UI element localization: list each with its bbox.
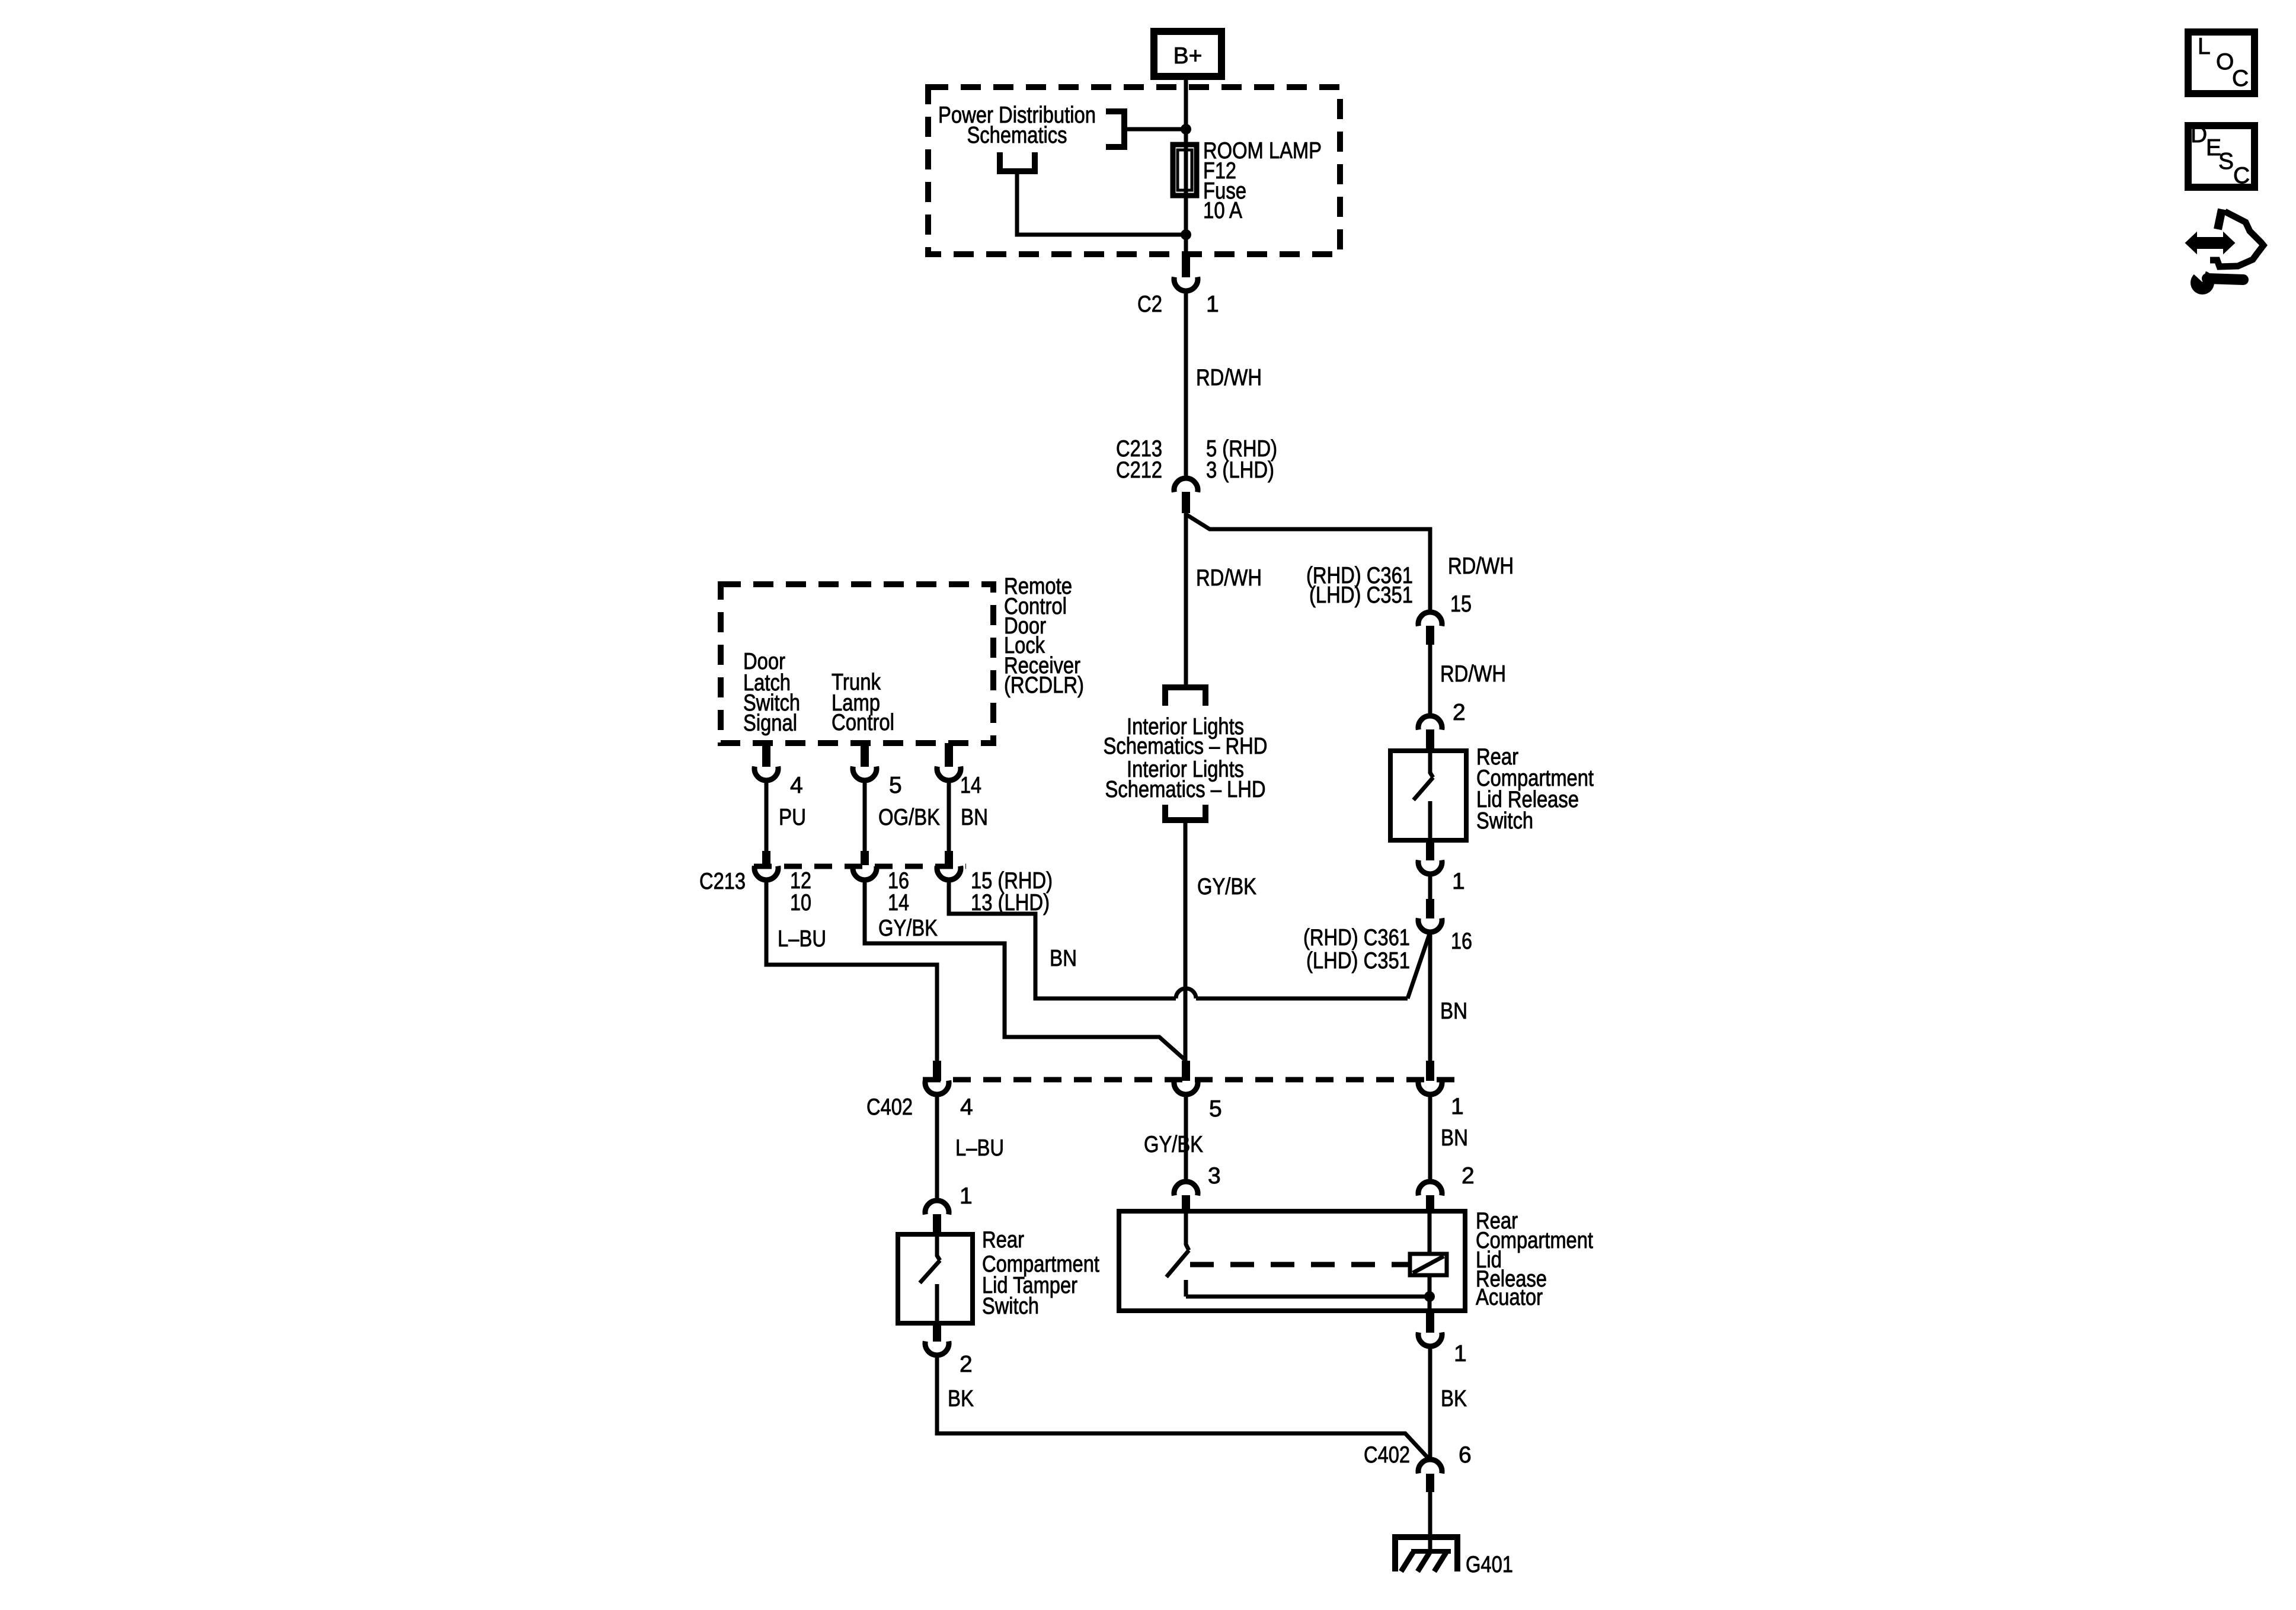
svg-text:O: O (2216, 49, 2234, 75)
svg-text:BK: BK (948, 1386, 974, 1411)
DESC icon box (2188, 126, 2255, 187)
actuator pin 1 stub (1426, 1311, 1434, 1333)
svg-text:BN: BN (1050, 946, 1077, 971)
svg-text:3 (LHD): 3 (LHD) (1206, 457, 1274, 483)
wire BN diagonal from pin 16 (1408, 932, 1430, 998)
connector RCDLR pin 14 (937, 767, 961, 780)
connector C402 pin 6 stub (1426, 1474, 1434, 1492)
wire L-BU to tamper switch (935, 1094, 939, 1201)
LOC icon box (2188, 32, 2255, 94)
actuator switch blade (1166, 1250, 1189, 1277)
svg-text:14: 14 (960, 773, 981, 798)
junction node dot (1181, 124, 1191, 135)
svg-text:6: 6 (1459, 1442, 1472, 1468)
svg-text:Schematics – RHD: Schematics – RHD (1104, 734, 1268, 759)
wire from RCDLR pin 5 (863, 780, 867, 851)
connector C213 stub x1459 (861, 851, 869, 865)
connector actuator pin 3 (1174, 1182, 1198, 1195)
svg-text:GY/BK: GY/BK (878, 916, 938, 941)
connector C402 pin 6 (1418, 1459, 1442, 1473)
svg-text:RD/WH: RD/WH (1196, 565, 1262, 591)
connector C361/C351 pin 16 (1418, 918, 1442, 932)
rear compartment lid release switch box (1390, 751, 1466, 840)
svg-text:Rear: Rear (982, 1227, 1024, 1253)
connector C402 pin 1 stub (1426, 1061, 1434, 1081)
connector C2 male stub (1182, 256, 1190, 277)
wire fuse to box bottom (1184, 145, 1188, 254)
off-page bracket down (Interior Lights) (1165, 687, 1205, 706)
connector C2 pin 1 (1174, 277, 1198, 291)
wire L-BU routing (766, 880, 937, 1062)
svg-text:BN: BN (1440, 998, 1467, 1024)
wire GY/BK routing (865, 880, 1186, 1061)
actuator switch contact top (1186, 1211, 1189, 1250)
svg-text:G401: G401 (1466, 1552, 1513, 1577)
tamper switch pin 2 stub (933, 1323, 941, 1342)
svg-text:(LHD) C351: (LHD) C351 (1309, 582, 1413, 608)
actuator pin 3 stub (1182, 1195, 1190, 1211)
wire BN to actuator pin 2 (1428, 1094, 1432, 1182)
svg-text:C: C (2233, 163, 2250, 188)
connector tamper switch pin 1 (925, 1201, 949, 1214)
connector C402 pin 4 stub (933, 1061, 941, 1081)
fuse F12 outer (1173, 145, 1197, 196)
svg-text:PU: PU (779, 805, 806, 830)
svg-text:C213: C213 (699, 869, 746, 894)
svg-text:2: 2 (1462, 1163, 1475, 1189)
RCDLR pin 5 stub (861, 743, 869, 767)
RCDLR pin 14 stub (945, 743, 953, 767)
wire RD/WH branch to right (1186, 514, 1430, 613)
svg-text:C212: C212 (1116, 457, 1162, 483)
wire GY/BK down to C402 (1184, 820, 1188, 1062)
fuse block dashed box (Power Distribution) (928, 87, 1340, 254)
RCDLR pin 4 stub (762, 743, 770, 767)
svg-text:BN: BN (961, 805, 988, 830)
car service icon: double arrow (2186, 233, 2234, 253)
svg-text:3: 3 (1208, 1163, 1221, 1189)
connector C213/C212 pin (1174, 478, 1198, 492)
svg-text:Acuator: Acuator (1476, 1285, 1543, 1310)
svg-text:2: 2 (1453, 700, 1466, 725)
svg-text:C2: C2 (1137, 292, 1162, 317)
svg-text:(LHD) C351: (LHD) C351 (1306, 948, 1410, 974)
svg-text:5: 5 (1209, 1096, 1222, 1122)
svg-text:C402: C402 (866, 1094, 913, 1120)
svg-text:L–BU: L–BU (778, 926, 826, 952)
wire from RCDLR pin 4 (765, 780, 769, 851)
connector C213 pin x1293 (754, 866, 778, 880)
release switch pin 1 stub (1426, 840, 1434, 860)
wire from RCDLR pin 14 (947, 780, 951, 851)
connector release switch pin 2 (1418, 716, 1442, 729)
svg-text:L: L (2198, 34, 2211, 59)
svg-text:1: 1 (1206, 292, 1219, 317)
tamper switch blade (920, 1260, 940, 1283)
wire BN down from pin 16 (1428, 932, 1432, 1062)
release switch blade (1414, 777, 1433, 800)
wire RD/WH main down (1184, 513, 1188, 687)
junction node dot (1181, 229, 1191, 240)
wire GY/BK to actuator pin 3 (1184, 1094, 1188, 1182)
svg-text:Switch: Switch (982, 1294, 1039, 1319)
connector C402 pin 4 (925, 1081, 949, 1094)
connector tamper switch pin 2 (925, 1342, 949, 1355)
connector C402 pin 5 stub (1182, 1061, 1190, 1081)
svg-text:BN: BN (1441, 1125, 1468, 1151)
car service icon: wrench (2191, 271, 2214, 295)
wire BK from actuator (1428, 1346, 1432, 1458)
svg-text:Control: Control (832, 710, 894, 735)
actuator internal dashed link (1190, 1262, 1410, 1267)
relay coil diagonal (1413, 1256, 1444, 1273)
svg-text:1: 1 (1454, 1341, 1467, 1366)
svg-text:10: 10 (790, 890, 811, 916)
svg-text:2: 2 (960, 1352, 973, 1377)
connector C361/C351 pin 15 (1418, 612, 1442, 626)
svg-text:GY/BK: GY/BK (1144, 1132, 1203, 1157)
connector C213/C212 male stub (1182, 492, 1190, 513)
svg-text:16: 16 (1451, 929, 1472, 954)
svg-text:GY/BK: GY/BK (1197, 874, 1256, 900)
battery feed symbol B+ (1154, 31, 1221, 76)
svg-text:10 A: 10 A (1203, 198, 1242, 223)
wire RD/WH to release switch (1428, 645, 1432, 717)
tamper switch contact bottom (935, 1284, 939, 1323)
svg-text:(RHD) C361: (RHD) C361 (1303, 925, 1410, 950)
svg-text:5: 5 (889, 773, 902, 798)
connector C213 pin x1459 (853, 866, 877, 880)
connector C402 pin 5 (1174, 1081, 1198, 1094)
svg-text:Schematics: Schematics (967, 123, 1067, 148)
release switch contact top (1430, 751, 1433, 777)
svg-text:RD/WH: RD/WH (1440, 661, 1506, 687)
wire relay to box top (1428, 1211, 1432, 1254)
svg-text:4: 4 (960, 1094, 973, 1120)
svg-text:RD/WH: RD/WH (1448, 553, 1514, 579)
car service icon: car outline (2218, 209, 2222, 229)
svg-text:4: 4 (790, 773, 803, 798)
actuator pin 2 stub (1426, 1195, 1434, 1211)
wire to ground (1428, 1492, 1432, 1551)
connector C213 dashed line (754, 864, 966, 869)
fuse F12 inner (1178, 150, 1192, 190)
off-page bracket (right of label) (1106, 111, 1124, 147)
svg-text:1: 1 (1452, 869, 1465, 894)
connector C213 stub x1293 (762, 851, 770, 865)
actuator relay coil (1410, 1254, 1447, 1275)
svg-text:OG/BK: OG/BK (878, 805, 940, 830)
connector C213 stub x1601 (945, 851, 953, 865)
wire RD/WH C2 to C213 (1184, 292, 1188, 478)
wire BN continue to pin16 diagonal (1196, 997, 1408, 1001)
connector pin 15 male stub (1426, 626, 1434, 645)
svg-text:Switch: Switch (1476, 808, 1533, 834)
wire to C361/C351 pin 16 (1428, 874, 1432, 899)
wire BN hop over GY/BK (1176, 988, 1196, 998)
RCDLR dashed box (721, 584, 993, 743)
svg-text:S: S (2218, 149, 2234, 174)
svg-text:Signal: Signal (743, 710, 797, 736)
rear compartment lid release actuator box (1119, 1211, 1465, 1311)
off-page bracket up (Interior Lights) (1165, 805, 1205, 820)
wire B+ to fuse block (1184, 73, 1188, 145)
release switch contact bottom (1428, 801, 1432, 840)
tamper switch contact top (937, 1234, 940, 1260)
wire BK from tamper switch (937, 1355, 1428, 1458)
svg-text:1: 1 (960, 1183, 973, 1209)
connector C361/C351 pin 16 stub (1426, 899, 1434, 918)
tamper switch pin 1 stub (933, 1214, 941, 1234)
svg-text:D: D (2191, 122, 2207, 148)
svg-text:15: 15 (1450, 591, 1472, 617)
svg-text:C: C (2232, 66, 2249, 91)
wire bracket down and to node (1017, 171, 1186, 235)
connector C213 pin x1601 (937, 866, 961, 880)
connector actuator pin 1 (1418, 1333, 1442, 1346)
connector actuator pin 2 (1418, 1182, 1442, 1195)
svg-text:RD/WH: RD/WH (1196, 365, 1262, 391)
svg-text:Schematics – LHD: Schematics – LHD (1105, 777, 1266, 802)
connector C402 dashed line (923, 1077, 1459, 1083)
wire relay to junction (1428, 1275, 1432, 1311)
svg-text:BK: BK (1441, 1386, 1467, 1411)
svg-text:B+: B+ (1173, 43, 1203, 69)
junction node dot (1424, 1291, 1435, 1302)
connector C402 pin 1 (1418, 1081, 1442, 1094)
wire BN routing (949, 880, 1176, 998)
connector RCDLR pin 4 (754, 767, 778, 780)
actuator switch contact bottom (1184, 1280, 1188, 1297)
wire bracket to node (1124, 127, 1186, 132)
svg-text:1: 1 (1451, 1094, 1464, 1119)
svg-text:(RCDLR): (RCDLR) (1004, 673, 1084, 698)
rear compartment lid tamper switch box (898, 1234, 973, 1323)
svg-text:C402: C402 (1364, 1442, 1410, 1468)
svg-text:14: 14 (888, 890, 909, 916)
svg-text:L–BU: L–BU (955, 1135, 1004, 1161)
connector release switch pin 1 (1418, 860, 1442, 874)
off-page bracket (below label) (1000, 152, 1035, 171)
ground G401 symbol (1395, 1537, 1457, 1571)
connector RCDLR pin 5 (853, 767, 877, 780)
release switch pin 2 stub (1426, 729, 1434, 751)
actuator internal bottom wire (1186, 1295, 1430, 1299)
